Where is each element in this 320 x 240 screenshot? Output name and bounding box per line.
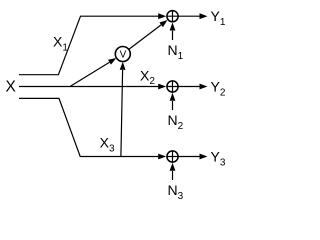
arrowhead X3 into adder U3 [158, 154, 166, 160]
svg-text:N1: N1 [168, 42, 184, 62]
wire U2 to output Y2 [178, 86, 200, 88]
arrowhead from V into adder U1 [159, 20, 167, 27]
wire X3 (bottom path: stub, fall, bottom run) [19, 98, 158, 156]
arrowhead N2 into U2 [170, 93, 176, 101]
wire U3 to output Y3 [178, 156, 200, 158]
svg-text:Y1: Y1 [211, 8, 226, 28]
wire branch from X2 run up to node V [70, 62, 110, 86]
arrowhead X2 into adder U2 [158, 84, 166, 90]
svg-text:Y2: Y2 [211, 79, 226, 99]
arrowhead X1 into adder U1 [158, 13, 166, 19]
svg-text:N2: N2 [168, 112, 184, 132]
svg-text:X3: X3 [100, 135, 115, 155]
arrowhead into node V from X2 branch [108, 58, 116, 65]
wire X1 (top path: stub, rise, top run) [19, 16, 158, 74]
svg-text:X2: X2 [140, 67, 155, 87]
arrowhead output Y3 [200, 154, 208, 160]
adder U1 (summing junction) [167, 11, 178, 22]
wire noise N2 into U2 [172, 101, 174, 110]
svg-text:N3: N3 [168, 182, 184, 200]
arrowhead output Y2 [200, 84, 208, 90]
wire from node V to adder U1 [129, 25, 161, 50]
node V (circle) [115, 47, 130, 62]
arrowhead N1 into U1 [170, 23, 176, 31]
adder U2 (summing junction) [167, 81, 178, 92]
wire X2 (middle run) [19, 86, 158, 88]
svg-text:Y3: Y3 [211, 149, 226, 169]
svg-text:X1: X1 [53, 34, 68, 54]
arrowhead output Y1 [200, 13, 208, 19]
wire tap from X3 run up to node V [121, 70, 123, 157]
adder U3 (summing junction) [167, 151, 178, 162]
svg-text:V: V [120, 50, 127, 61]
arrowhead N3 into U3 [170, 163, 176, 171]
wire U1 to output Y1 [178, 15, 200, 17]
arrowhead into node V from X3 tap [120, 62, 126, 70]
svg-text:X: X [6, 79, 17, 96]
wire noise N3 into U3 [172, 171, 174, 180]
wire noise N1 into U1 [172, 31, 174, 40]
